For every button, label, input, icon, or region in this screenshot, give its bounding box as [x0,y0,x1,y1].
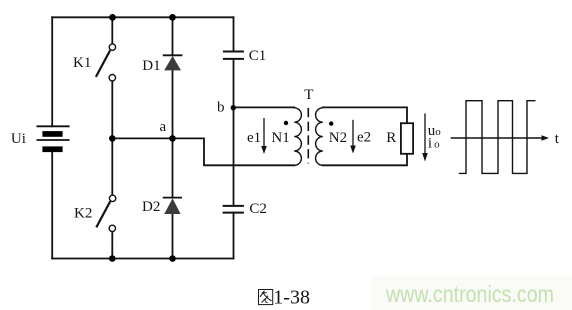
svg-text:N2: N2 [329,130,347,146]
svg-text:www.cntronics.com: www.cntronics.com [385,281,554,307]
svg-text:D1: D1 [142,58,160,74]
svg-text:1-38: 1-38 [273,286,310,308]
svg-text:D2: D2 [142,199,160,215]
svg-text:C2: C2 [249,201,267,217]
svg-text:K2: K2 [74,206,92,222]
svg-text:R: R [386,130,396,146]
svg-text:e2: e2 [357,130,371,146]
svg-text:K1: K1 [73,55,91,71]
svg-text:t: t [555,131,560,147]
svg-text:T: T [304,87,313,103]
svg-text:C1: C1 [249,48,267,64]
svg-text:Ui: Ui [11,131,26,147]
svg-text:e1: e1 [247,130,261,146]
svg-text:b: b [217,100,225,116]
svg-text:a: a [160,119,167,135]
svg-text:i o: i o [428,136,440,152]
svg-text:N1: N1 [271,130,289,146]
